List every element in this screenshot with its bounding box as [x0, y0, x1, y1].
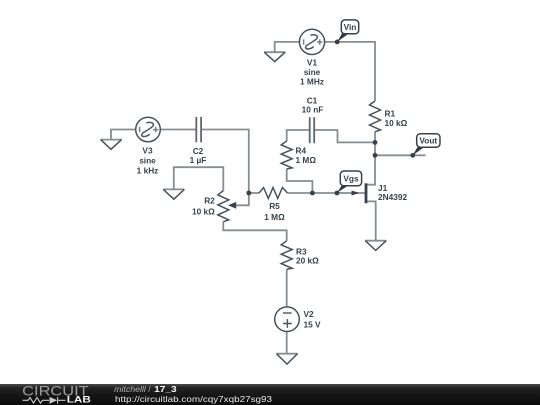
svg-text:sine: sine [139, 155, 156, 165]
svg-text:1 MΩ: 1 MΩ [296, 155, 317, 165]
svg-text:10 kΩ: 10 kΩ [192, 207, 215, 217]
svg-text:10 nF: 10 nF [302, 104, 324, 114]
svg-text:1 kHz: 1 kHz [137, 166, 159, 176]
svg-text:10 kΩ: 10 kΩ [385, 118, 408, 128]
svg-text:2N4392: 2N4392 [378, 192, 407, 202]
svg-text:R1: R1 [385, 108, 396, 118]
svg-text:V2: V2 [304, 309, 315, 319]
svg-text:1 MHz: 1 MHz [300, 77, 324, 87]
svg-text:1 MΩ: 1 MΩ [264, 212, 285, 222]
svg-text:V3: V3 [142, 146, 153, 156]
svg-text:R2: R2 [204, 195, 215, 205]
svg-text:sine: sine [304, 67, 321, 77]
svg-text:Vgs: Vgs [343, 173, 359, 183]
svg-text:20 kΩ: 20 kΩ [296, 256, 319, 266]
svg-text:17_3: 17_3 [154, 384, 177, 394]
svg-text:R5: R5 [269, 201, 280, 211]
svg-text:mitchelll: mitchelll [114, 384, 147, 394]
svg-text:LAB: LAB [67, 394, 91, 404]
svg-text:Vout: Vout [419, 136, 437, 146]
svg-text:R4: R4 [296, 146, 307, 156]
svg-text:Vin: Vin [344, 22, 357, 32]
svg-text:1 µF: 1 µF [190, 155, 207, 165]
svg-text:V1: V1 [307, 57, 318, 67]
svg-text:/: / [148, 384, 151, 394]
svg-text:15 V: 15 V [304, 319, 322, 329]
svg-text:http://circuitlab.com/cqy7xqb2: http://circuitlab.com/cqy7xqb27sg93 [115, 395, 273, 404]
